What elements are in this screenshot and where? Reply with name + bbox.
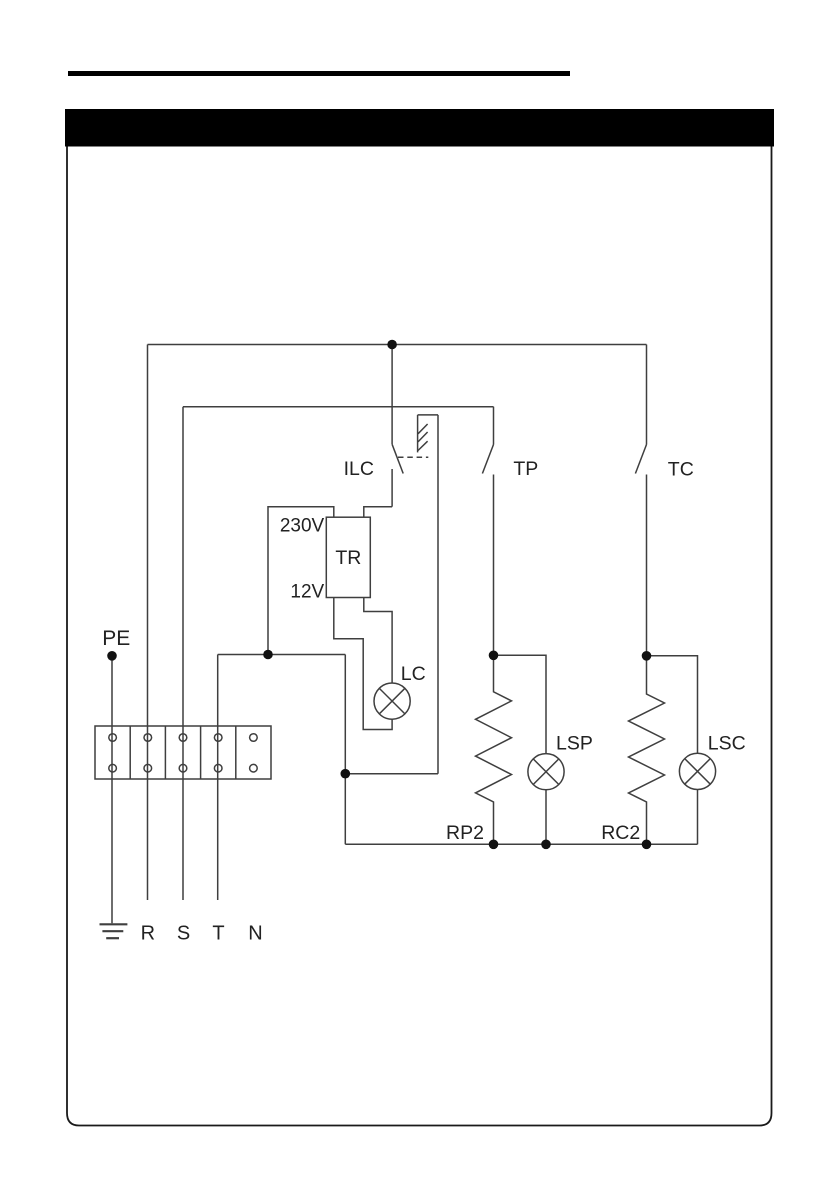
svg-text:S: S [177, 922, 190, 944]
wire link to ILC actuator [345, 773, 438, 775]
switch TP [482, 407, 493, 656]
wire S phase drop [182, 407, 184, 900]
node junction TC branch [642, 651, 652, 661]
panel outline [67, 140, 772, 1126]
svg-text:TR: TR [335, 547, 361, 569]
wire 230V primary left [268, 507, 334, 655]
svg-text:TP: TP [513, 458, 538, 480]
node junction RC2 bottom [642, 840, 652, 850]
svg-text:N: N [248, 922, 262, 944]
svg-text:R: R [141, 922, 155, 944]
lamp LSP [528, 754, 564, 790]
svg-text:RP2: RP2 [446, 822, 484, 844]
node junction top rail [387, 340, 397, 350]
terminal block X1 [95, 726, 271, 779]
wire neutral T horizontal [218, 654, 346, 656]
svg-text:12V: 12V [290, 581, 324, 602]
svg-text:RC2: RC2 [601, 822, 640, 844]
title underline rule [68, 71, 570, 76]
resistor RP2 [476, 655, 512, 844]
wire second rail [183, 406, 494, 408]
svg-text:PE: PE [102, 627, 130, 650]
svg-text:LC: LC [401, 663, 426, 685]
node junction 230V/neutral [263, 650, 273, 660]
wire bottom return rail [345, 843, 697, 845]
wire TC to LSC [647, 656, 698, 754]
svg-text:ILC: ILC [344, 458, 374, 480]
svg-text:TC: TC [668, 459, 694, 481]
wire R phase drop [147, 345, 149, 901]
switch ILC [392, 415, 438, 507]
lamp LSC [679, 753, 715, 789]
wire TR secondary right lead [364, 598, 392, 684]
wire T phase drop [217, 655, 219, 901]
node junction TP branch [489, 651, 499, 661]
svg-text:230V: 230V [280, 516, 325, 537]
node junction mid return [341, 769, 351, 779]
svg-text:LSC: LSC [708, 733, 746, 755]
lamp LC [374, 683, 410, 719]
svg-text:LSP: LSP [556, 732, 593, 754]
node PE terminal [107, 651, 117, 661]
wire ILC actuator return [437, 415, 439, 774]
wire top supply rail [148, 344, 647, 346]
wire LSP bottom lead [545, 790, 547, 845]
node junction LSP bottom [541, 840, 551, 850]
wire PE drop [111, 656, 113, 923]
transformer TR [326, 517, 370, 597]
panel header bar [65, 109, 774, 147]
switch TC [635, 345, 646, 656]
wire ILC to TR primary [364, 507, 392, 518]
wire ILC feed drop [391, 345, 393, 445]
svg-text:T: T [212, 922, 224, 944]
node junction RP2 bottom [489, 840, 499, 850]
ground [100, 924, 128, 938]
wire TR secondary left lead [334, 598, 392, 730]
wire LSC bottom lead [697, 790, 699, 845]
resistor RC2 [629, 656, 665, 845]
wire TP to LSP [494, 655, 547, 753]
wire mid return vertical [344, 655, 346, 845]
